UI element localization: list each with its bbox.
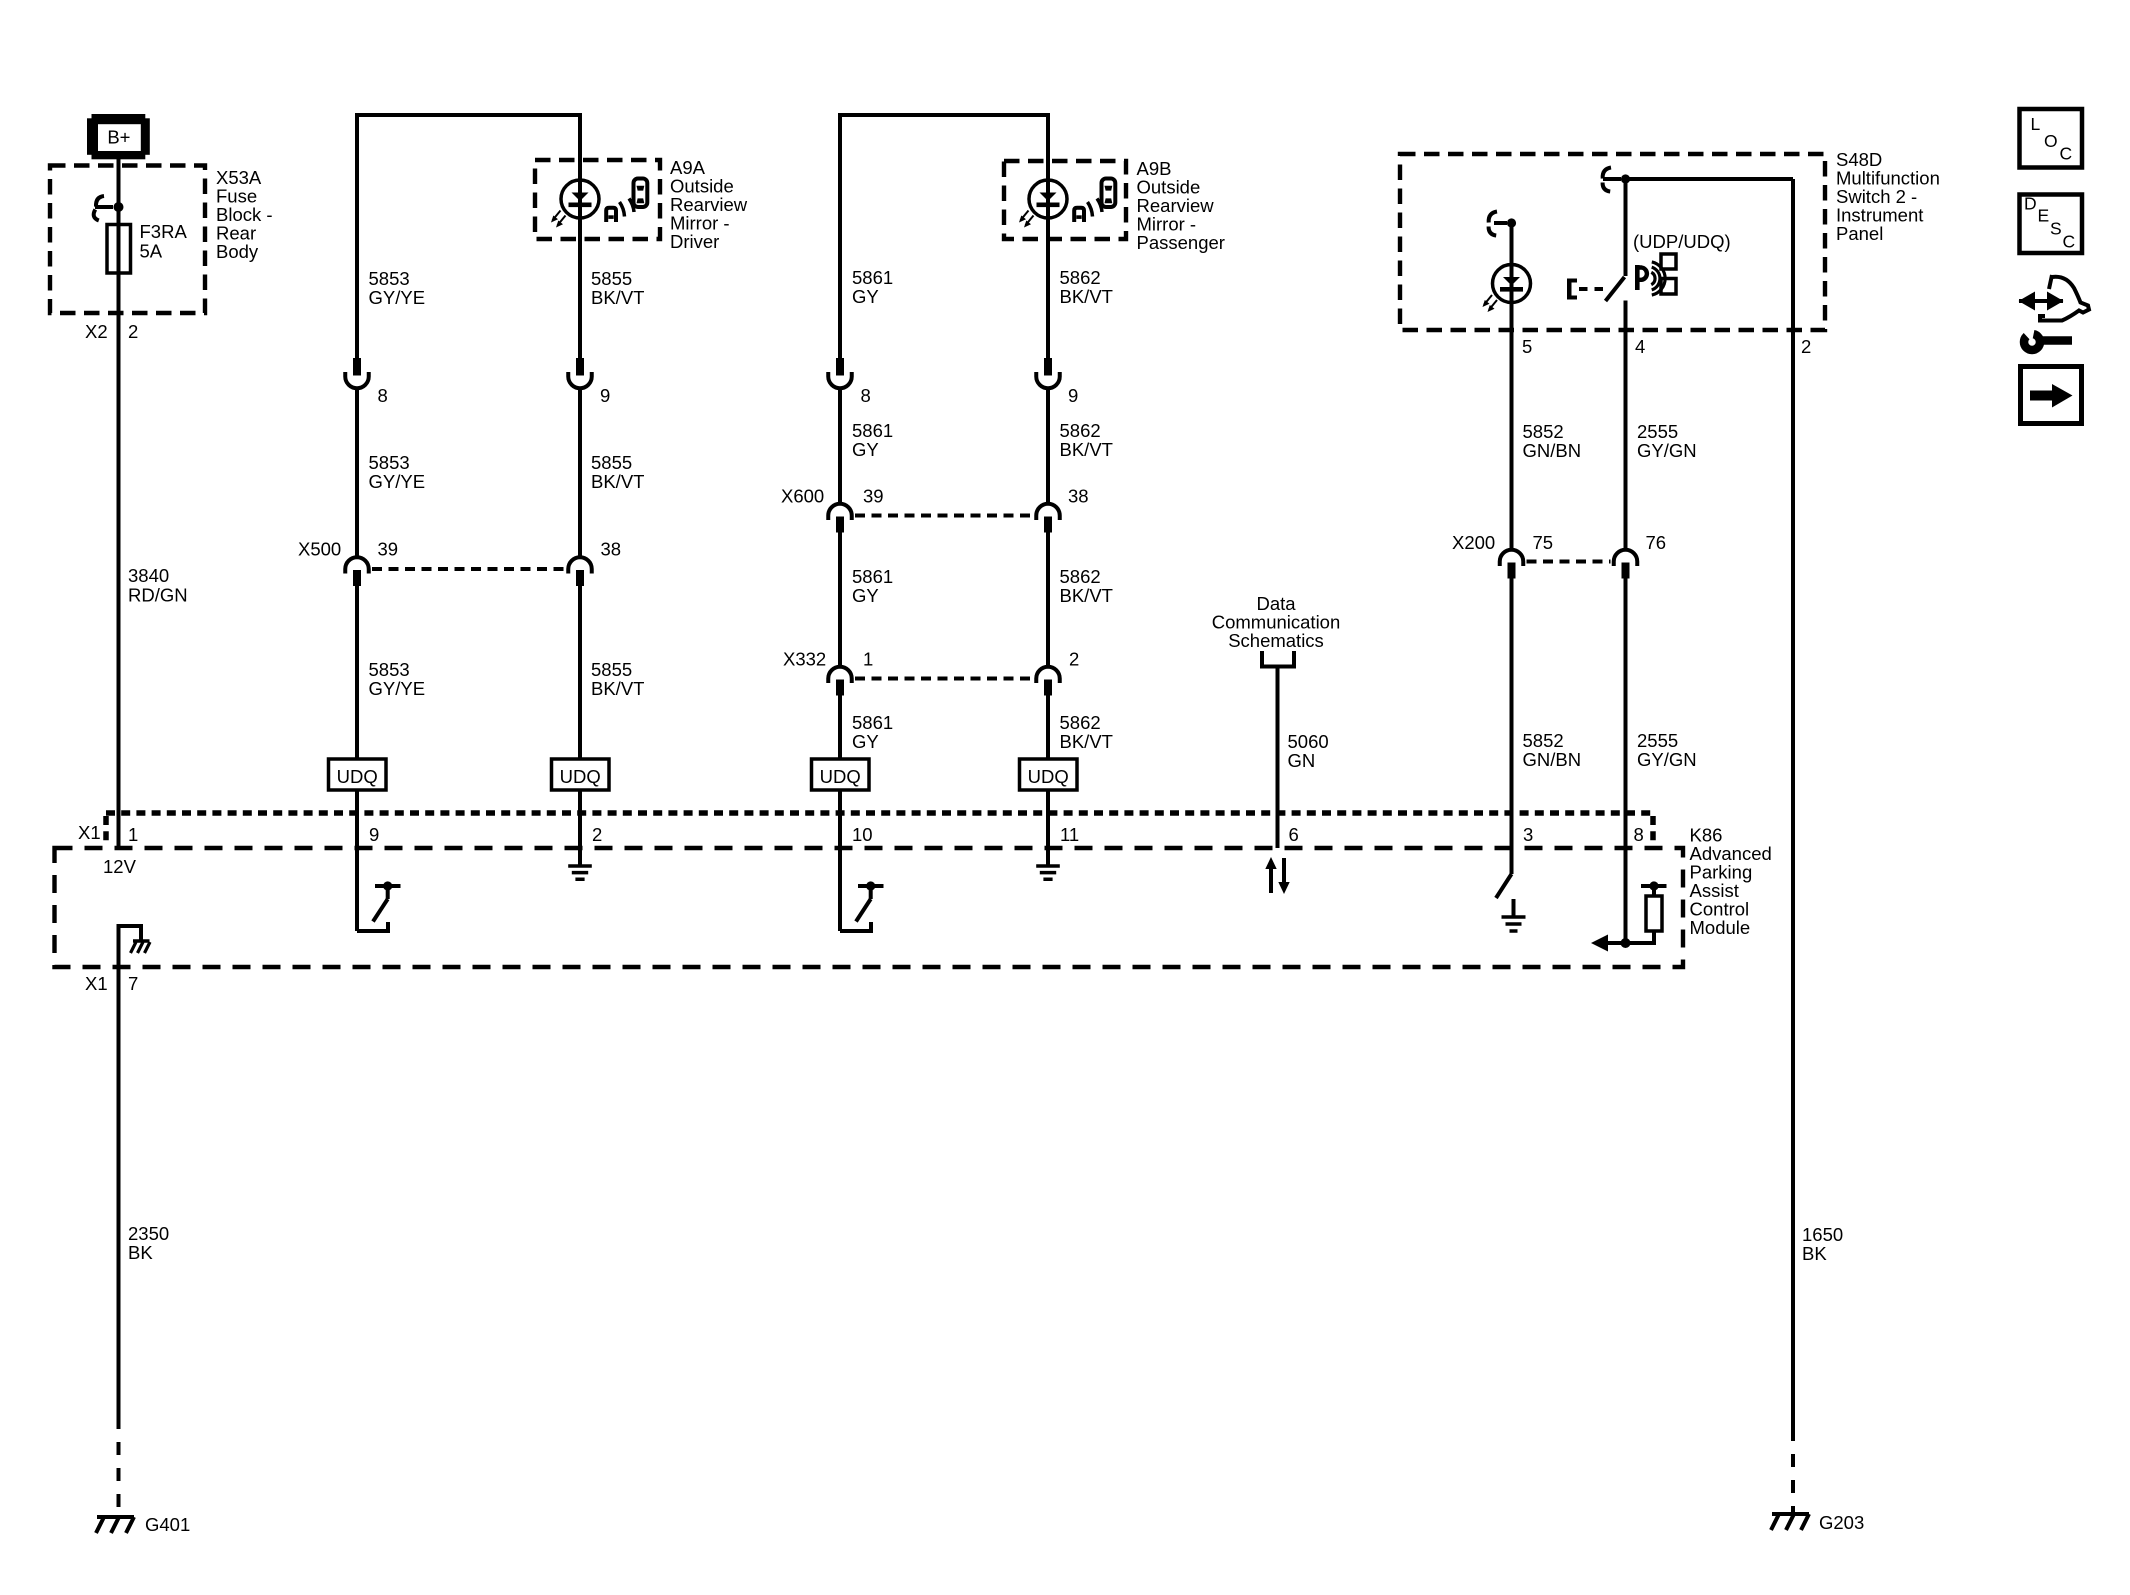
wire 5862 BK/VT third [1046, 532, 1050, 666]
svg-text:1: 1 [128, 824, 138, 845]
wire 5861 GY second [838, 390, 842, 503]
A9A label [670, 157, 748, 252]
fuse block X53A dashed box [50, 166, 205, 314]
svg-text:5861: 5861 [852, 712, 893, 733]
wire 3840 RD/GN label [128, 565, 188, 606]
svg-text:X332: X332 [783, 649, 826, 670]
svg-text:9: 9 [1068, 385, 1078, 406]
internal resistor and sense arrow pin 8 [1591, 881, 1667, 951]
svg-text:BK/VT: BK/VT [591, 287, 644, 308]
svg-text:C: C [2060, 144, 2073, 164]
wire 5862 into module pin 11 [1046, 790, 1050, 866]
svg-text:UDQ: UDQ [820, 766, 861, 787]
svg-text:5855: 5855 [591, 452, 632, 473]
svg-text:5853: 5853 [369, 268, 410, 289]
svg-text:5861: 5861 [852, 420, 893, 441]
svg-text:GY/YE: GY/YE [369, 287, 426, 308]
wire 5862 BK/VT upper [1046, 113, 1050, 358]
connector X500 pin 38 [568, 557, 592, 586]
svg-text:GY: GY [852, 439, 879, 460]
svg-text:5862: 5862 [1060, 267, 1101, 288]
svg-text:GN: GN [1288, 750, 1316, 771]
X200 label [1452, 532, 1666, 553]
wire 2555 labels [1637, 421, 1697, 770]
ground G401 [96, 1517, 134, 1533]
svg-text:UDQ: UDQ [337, 766, 378, 787]
svg-text:2: 2 [592, 824, 602, 845]
splice dashed link X600 [855, 514, 1033, 518]
svg-text:39: 39 [863, 486, 884, 507]
battery feed symbol B+ [87, 114, 150, 159]
svg-text:3840: 3840 [128, 565, 169, 586]
inline connector pin 8 (passenger) [828, 358, 852, 388]
wire pin 4 upper [1624, 179, 1628, 276]
connector X1 pin 7 label [85, 973, 138, 994]
connector X600 pin 39 [828, 504, 852, 533]
wire B+ to K86 pin X1-1 [117, 157, 121, 848]
wire 5853 GY/YE middle [355, 390, 359, 556]
wire 5853 GY/YE upper [355, 113, 359, 358]
LED indicator (S48D) [1483, 265, 1531, 313]
svg-text:10: 10 [852, 824, 873, 845]
internal terminal hook (pin 4 branch) [1603, 168, 1631, 192]
svg-text:2: 2 [1801, 336, 1811, 357]
wire 5861 labels [852, 267, 893, 752]
svg-text:D: D [2024, 194, 2037, 214]
svg-text:11: 11 [1060, 824, 1079, 845]
S48D pin labels [1522, 336, 1811, 357]
dotted corner left [103, 816, 109, 846]
wire 5855 labels [591, 268, 644, 699]
X500 label [298, 539, 621, 560]
connector X332 pin 1 [828, 667, 852, 696]
svg-text:GY/GN: GY/GN [1637, 749, 1697, 770]
wire 5861 GY upper [838, 113, 842, 358]
wire 1650 BK dashed tail [1791, 1428, 1795, 1513]
svg-text:5853: 5853 [369, 452, 410, 473]
wire top jumper 5861/5862 [840, 113, 1048, 117]
svg-text:X200: X200 [1452, 532, 1495, 553]
svg-text:X2: X2 [85, 321, 108, 342]
connector X332 pin 2 [1036, 667, 1060, 696]
svg-text:76: 76 [1646, 532, 1667, 553]
svg-text:GY: GY [852, 585, 879, 606]
wire 5852 labels [1523, 421, 1582, 770]
blind spot icon (A9A) [606, 179, 647, 223]
svg-text:5060: 5060 [1288, 731, 1329, 752]
wire 5060 GN [1276, 667, 1280, 849]
svg-text:12V: 12V [103, 856, 137, 877]
wire 5852 GN/BN into module pin 3 [1510, 578, 1514, 874]
svg-text:5852: 5852 [1523, 730, 1564, 751]
svg-text:RD/GN: RD/GN [128, 585, 188, 606]
wire 5855 BK/VT upper [578, 113, 582, 358]
svg-text:X1: X1 [85, 973, 108, 994]
internal switch to ground pin 3 [1496, 874, 1526, 931]
svg-text:L: L [2031, 114, 2041, 134]
svg-text:X600: X600 [781, 486, 824, 507]
connector X600 pin 38 [1036, 504, 1060, 533]
svg-text:5852: 5852 [1523, 421, 1564, 442]
LED indicator (A9B) [1019, 180, 1067, 228]
svg-text:5853: 5853 [369, 659, 410, 680]
svg-text:9: 9 [369, 824, 379, 845]
wire 2555 GY/GN into module pin 8 [1624, 578, 1628, 943]
svg-text:GY/YE: GY/YE [369, 678, 426, 699]
svg-text:UDQ: UDQ [560, 766, 601, 787]
wire 5862 BK/VT lower [1046, 695, 1050, 759]
fuse holder clip [94, 196, 124, 221]
ground G203 [1771, 1514, 1809, 1530]
svg-text:3: 3 [1523, 824, 1533, 845]
svg-text:2555: 2555 [1637, 730, 1678, 751]
svg-text:9: 9 [600, 385, 610, 406]
svg-text:2: 2 [128, 321, 138, 342]
svg-text:Passenger: Passenger [1137, 232, 1225, 253]
svg-text:F3RA: F3RA [140, 221, 188, 242]
UDQ code box (5853) [329, 759, 387, 790]
svg-text:E: E [2038, 206, 2050, 226]
fuse block X53A label [216, 167, 273, 262]
wire 5861 GY lower [838, 695, 842, 759]
svg-text:BK/VT: BK/VT [1060, 286, 1113, 307]
wire top jumper 5853/5855 [357, 113, 580, 117]
svg-text:4: 4 [1635, 336, 1645, 357]
svg-text:BK/VT: BK/VT [1060, 731, 1113, 752]
mechanical linkage dashes [1579, 287, 1604, 291]
wire 5853 into module pin 9 [355, 790, 359, 931]
wire 5862 labels [1060, 267, 1113, 752]
UDQ code box (5862) [1020, 759, 1078, 790]
inline connector pin 9 (passenger) [1036, 358, 1060, 388]
svg-text:5855: 5855 [591, 659, 632, 680]
LED indicator (A9A) [551, 180, 599, 228]
svg-text:G401: G401 [145, 1514, 190, 1535]
LOC icon box [2020, 109, 2083, 168]
next page arrow icon [2021, 367, 2082, 424]
internal data arrows pin 6 [1265, 857, 1289, 894]
switch blade (UDP/UDQ switch) [1606, 277, 1625, 301]
internal ground pin 11 [1036, 866, 1060, 879]
fuse F3RA 5A [107, 225, 131, 274]
inline connector pin 9 (driver) [568, 358, 592, 388]
svg-text:5862: 5862 [1060, 712, 1101, 733]
svg-text:5: 5 [1522, 336, 1532, 357]
svg-text:Module: Module [1690, 917, 1751, 938]
svg-text:BK: BK [1802, 1243, 1827, 1264]
wire 2350 BK dashed tail [117, 1416, 121, 1516]
svg-text:Body: Body [216, 241, 259, 262]
internal switch pin 10 [840, 881, 884, 931]
internal terminal hook (pin 5 branch) [1489, 212, 1517, 236]
svg-text:GN/BN: GN/BN [1523, 749, 1582, 770]
svg-text:UDQ: UDQ [1028, 766, 1069, 787]
dotted corner right [1650, 816, 1656, 846]
S48D dashed box [1400, 154, 1825, 330]
splice dashed link X200 [1527, 560, 1611, 564]
wire 1650 BK [1791, 179, 1795, 1428]
mechanical linkage bracket [1567, 279, 1577, 300]
svg-text:Schematics: Schematics [1228, 630, 1324, 651]
connector X200 pin 75 [1500, 550, 1524, 579]
svg-text:8: 8 [861, 385, 871, 406]
internal switch pin 9 [357, 881, 401, 931]
internal ground pin 2 [568, 866, 592, 879]
svg-text:1650: 1650 [1802, 1224, 1843, 1245]
svg-text:BK/VT: BK/VT [1060, 585, 1113, 606]
wire 5855 into module pin 2 [578, 790, 582, 866]
A9B dashed box [1004, 161, 1126, 239]
svg-text:GY: GY [852, 286, 879, 307]
svg-text:BK/VT: BK/VT [591, 678, 644, 699]
svg-text:1: 1 [863, 649, 873, 670]
wire jumper to pin 2 [1626, 177, 1794, 181]
svg-text:BK/VT: BK/VT [1060, 439, 1113, 460]
svg-text:5855: 5855 [591, 268, 632, 289]
svg-text:2350: 2350 [128, 1223, 169, 1244]
svg-text:S: S [2050, 219, 2062, 239]
wire 5861 GY third [838, 532, 842, 666]
A9B label [1137, 158, 1225, 253]
svg-text:7: 7 [128, 973, 138, 994]
X600 label [781, 486, 1089, 507]
wire 5855 BK/VT lower [578, 586, 582, 760]
svg-text:39: 39 [378, 539, 399, 560]
fuse value label [140, 221, 188, 262]
UDQ code box (5861) [812, 759, 870, 790]
splice pack dashed link X500 [372, 567, 565, 571]
svg-text:75: 75 [1533, 532, 1554, 553]
module harness dotted line [106, 810, 1653, 816]
A9A dashed box [535, 160, 660, 239]
UDQ code box (5855) [552, 759, 610, 790]
svg-text:2555: 2555 [1637, 421, 1678, 442]
wire 5060 GN label [1288, 731, 1329, 771]
inline connector pin 8 (driver) [345, 358, 369, 388]
wire 5853 GY/YE lower [355, 586, 359, 760]
connector X200 pin 76 [1614, 550, 1638, 579]
blind spot icon (A9B) [1074, 179, 1115, 223]
svg-text:B+: B+ [107, 127, 130, 148]
svg-text:38: 38 [601, 539, 622, 560]
svg-text:O: O [2044, 131, 2058, 151]
wire 5861 into module pin 10 [838, 790, 842, 931]
svg-text:5861: 5861 [852, 566, 893, 587]
svg-text:GN/BN: GN/BN [1523, 440, 1582, 461]
internal ground lead X1-7 [119, 926, 151, 967]
svg-text:BK: BK [128, 1242, 153, 1263]
svg-text:X500: X500 [298, 539, 341, 560]
X332 label [783, 649, 1079, 670]
svg-text:X1: X1 [78, 822, 101, 843]
svg-text:GY: GY [852, 731, 879, 752]
svg-text:Driver: Driver [670, 231, 719, 252]
park assist P icon [1635, 254, 1676, 295]
wire 1650 BK label [1802, 1224, 1843, 1264]
svg-text:6: 6 [1289, 824, 1299, 845]
connector X500 pin 39 [345, 557, 369, 586]
K86 label [1690, 825, 1772, 939]
svg-text:8: 8 [1634, 824, 1644, 845]
wire 2350 BK [117, 967, 121, 1416]
svg-text:5862: 5862 [1060, 566, 1101, 587]
svg-text:8: 8 [378, 385, 388, 406]
wire 5853 labels [369, 268, 426, 699]
data communication schematics label [1212, 593, 1341, 651]
connector X1 pin 1 label [78, 822, 101, 843]
svg-text:38: 38 [1068, 486, 1089, 507]
wire pin 4 lower [1624, 301, 1628, 549]
module pin labels [128, 824, 1644, 845]
svg-text:GY/YE: GY/YE [369, 471, 426, 492]
svg-text:2: 2 [1069, 649, 1079, 670]
svg-text:5862: 5862 [1060, 420, 1101, 441]
svg-text:GY/GN: GY/GN [1637, 440, 1697, 461]
wire 2350 BK label [128, 1223, 169, 1263]
svg-text:G203: G203 [1819, 1512, 1864, 1533]
svg-text:5861: 5861 [852, 267, 893, 288]
svg-text:(UDP/UDQ): (UDP/UDQ) [1633, 231, 1731, 252]
off-page bracket [1262, 651, 1294, 667]
connector end view icon [2019, 275, 2090, 350]
wire 5855 BK/VT middle [578, 390, 582, 556]
svg-text:Panel: Panel [1836, 223, 1883, 244]
wire pin 5 branch [1510, 223, 1514, 549]
S48D label [1836, 149, 1940, 244]
svg-text:BK/VT: BK/VT [591, 471, 644, 492]
splice dashed link X332 [855, 677, 1033, 681]
svg-text:5A: 5A [140, 241, 163, 262]
wire 5862 BK/VT second [1046, 390, 1050, 503]
connector X2 pin 2 label [85, 321, 138, 342]
svg-text:C: C [2063, 232, 2076, 252]
K86 module dashed box [55, 848, 1684, 967]
DESC icon box [2020, 194, 2083, 254]
